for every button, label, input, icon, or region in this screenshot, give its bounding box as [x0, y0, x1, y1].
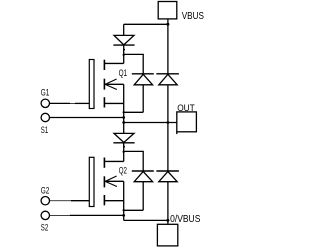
- diode D2 (freewheel upper-left): [132, 74, 154, 85]
- diode D6 (clamp lower-right): [156, 171, 179, 182]
- transistor Q2 gate plate: [89, 157, 94, 206]
- transistor Q2 drain lead: [104, 160, 123, 162]
- transistor Q1 source lead: [104, 102, 123, 104]
- svg-text:G2: G2: [41, 185, 50, 195]
- diode D5 (freewheel lower-left): [132, 171, 154, 182]
- junction VBUS rail: [166, 23, 169, 26]
- wire jog Q2 drain node to diode D5 cathode: [124, 151, 144, 171]
- wire D1 cathode to Q1 drain node: [123, 45, 125, 63]
- wire Q1 node column down to lower diode: [123, 84, 125, 133]
- svg-text:OUT: OUT: [177, 103, 195, 113]
- wire end nub: [124, 146, 126, 147]
- 0/VBUS port box: [157, 224, 177, 246]
- wire D3 anode down to lower right diode: [167, 85, 169, 171]
- transistor Q1 gate plate: [89, 60, 94, 109]
- junction jog2: [123, 111, 125, 113]
- wire jog D2 anode to source column: [124, 111, 144, 113]
- wire VBUS column down to diode D3: [167, 24, 169, 74]
- terminal G1: [41, 99, 49, 107]
- wire rail to diode D1: [123, 24, 125, 35]
- VBUS port box: [158, 2, 177, 19]
- transistor Q2 channel middle bar: [103, 176, 105, 187]
- transistor Q1 body arrow: [105, 79, 117, 90]
- terminal G2: [41, 197, 49, 205]
- diode D1 (series, top): [113, 35, 134, 45]
- wire OUT line: [124, 122, 177, 124]
- wire jog D5 anode to source column: [124, 209, 144, 211]
- transistor Q1 channel middle bar: [103, 79, 105, 90]
- transistor Q1 channel bottom bar: [103, 97, 105, 107]
- transistor Q2 body lead: [105, 180, 124, 182]
- wire D2 anode down to jog: [142, 85, 144, 113]
- svg-text:G1: G1: [41, 88, 50, 98]
- svg-text:Q2: Q2: [119, 165, 127, 175]
- junction jog4: [123, 209, 125, 211]
- svg-text:Q1: Q1: [119, 68, 128, 78]
- wire G2 to gate (gray start then black): [50, 200, 71, 202]
- transistor Q2 body arrow: [105, 176, 117, 187]
- wire D6 anode down to bottom rail: [167, 182, 169, 225]
- OUT box corner tick: [176, 132, 178, 134]
- wire G1 to gate (black, gray joint, black): [50, 102, 70, 104]
- wire D5 anode down to jog: [142, 182, 144, 211]
- junction OUT right: [167, 121, 170, 124]
- junction jog1: [123, 54, 125, 56]
- junction S1: [122, 116, 125, 119]
- junction jog3: [123, 151, 125, 153]
- wire bottom rail: [124, 219, 168, 221]
- transistor Q2 source lead: [104, 200, 123, 202]
- diode D4 (series, lower): [113, 133, 134, 142]
- wire Q2 node column down to bottom rail: [123, 181, 125, 220]
- svg-text:VBUS: VBUS: [182, 11, 204, 22]
- transistor Q1 body lead: [105, 83, 124, 85]
- wire S1 to source column: [50, 117, 124, 119]
- terminal S1: [41, 113, 49, 121]
- terminal S2: [41, 211, 49, 219]
- transistor Q1 channel top bar: [103, 60, 105, 70]
- wire end nub: [124, 49, 126, 50]
- svg-text:S1: S1: [41, 125, 48, 135]
- wire S2 to source column (gray start then black): [50, 214, 70, 216]
- transistor Q1 drain lead: [104, 62, 123, 64]
- wire D4 cathode to Q2 drain node: [123, 143, 125, 162]
- junction bottom rail: [166, 219, 169, 222]
- wire top rail: [124, 23, 168, 25]
- diode D3 (clamp upper-right): [156, 74, 179, 85]
- OUT port box: [177, 112, 197, 132]
- transistor Q2 channel top bar: [103, 158, 105, 168]
- svg-text:0/VBUS: 0/VBUS: [170, 214, 200, 225]
- svg-text:S2: S2: [41, 222, 48, 232]
- wire VBUS box stub: [167, 19, 169, 24]
- junction OUT left: [122, 121, 125, 124]
- transistor Q2 channel bottom bar: [103, 195, 105, 205]
- wire jog drain node to diode D2 cathode: [124, 54, 144, 73]
- junction S2: [122, 214, 125, 217]
